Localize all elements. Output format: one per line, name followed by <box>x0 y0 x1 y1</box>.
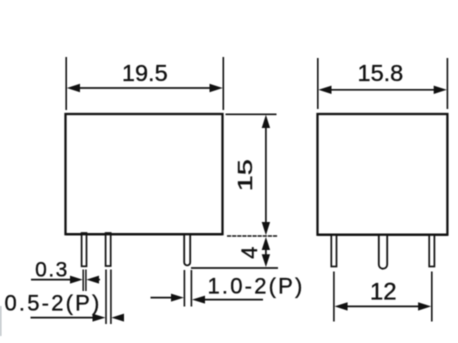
arrowhead down <box>262 254 270 267</box>
left leader line <box>151 297 173 299</box>
arrowhead left <box>67 84 80 92</box>
arrowhead right <box>418 302 431 310</box>
dimension 1.0-2(P) (pin C thickness) <box>151 270 305 307</box>
dimension 19.5 (top width, side view) <box>66 57 223 110</box>
svg-text:12: 12 <box>370 279 397 306</box>
extension line left below pin 1 <box>333 272 335 322</box>
extension line top <box>226 113 277 115</box>
extension line right below pin C <box>190 270 192 307</box>
extension line bottom at pin tips <box>191 267 278 269</box>
leader line with right arrow <box>31 279 72 281</box>
dimension 4 (pin length, side view) <box>191 237 278 268</box>
extension line left below pin A <box>82 270 84 292</box>
dimension line <box>324 89 441 91</box>
dimension line vertical <box>265 126 267 226</box>
relay body outline (side view) <box>66 114 223 234</box>
dimension 0.3 (pin A thickness) <box>31 258 100 291</box>
extension line right below pin 3 <box>431 272 433 322</box>
arrowhead pointing left from right side <box>86 276 99 284</box>
extension line left below pin C <box>183 270 185 307</box>
arrowhead down <box>262 222 270 235</box>
arrowhead pointing right at pin <box>70 276 83 284</box>
svg-text:15: 15 <box>234 159 256 191</box>
dimension 15 (body height, side view) <box>226 114 279 236</box>
extension line right below pin B <box>110 270 112 325</box>
dimension 0.5-2(P) (pin B thickness) <box>5 270 125 325</box>
short tail right <box>96 279 100 281</box>
svg-text:0.3: 0.3 <box>35 258 69 281</box>
svg-text:19.5: 19.5 <box>122 60 168 86</box>
arrowhead pointing right at pin <box>93 314 106 322</box>
dimension line vertical <box>265 240 267 264</box>
pin 3 (right pin, front view) <box>429 235 434 267</box>
arrowhead right <box>210 84 223 92</box>
dimension line <box>340 305 426 307</box>
pin C (coil pin with rounded tip, side view) <box>184 233 190 265</box>
extension line bottom (dashed) <box>227 235 278 237</box>
dimension line <box>72 87 217 89</box>
body bottom edge redrawn over pin tops (side view) <box>66 233 223 235</box>
extension line right <box>446 58 448 109</box>
arrowhead left <box>318 86 331 94</box>
arrowhead pointing left from right side <box>111 314 124 322</box>
extension line right <box>222 57 224 110</box>
extension line right below pin A <box>85 270 87 292</box>
arrowhead pointing right at pin <box>171 294 184 302</box>
pin 2 (middle pin with rounded tip, front view) <box>379 235 387 269</box>
arrowhead up <box>262 115 270 128</box>
arrowhead left <box>335 302 348 310</box>
arrowhead right <box>434 86 447 94</box>
relay body outline (front view) <box>318 114 448 235</box>
extension line left <box>65 57 67 110</box>
svg-text:15.8: 15.8 <box>358 60 404 86</box>
pin 1 (left pin, front view) <box>331 235 336 267</box>
arrowhead up <box>262 237 270 250</box>
scan artifact line at left edge <box>0 306 2 336</box>
extension line left below pin B <box>105 270 107 325</box>
pin A (left thin pin, side view) <box>82 233 87 266</box>
dimension 12 (pin spacing, front view) <box>334 272 432 322</box>
underline leader <box>204 299 263 301</box>
leader line with right arrow <box>31 317 94 319</box>
svg-text:4: 4 <box>237 247 262 259</box>
dimension 15.8 (top width, front view) <box>318 58 448 109</box>
svg-text:0.5-2(P): 0.5-2(P) <box>5 291 102 316</box>
pin B (second thin pin, side view) <box>106 233 111 266</box>
extension line left <box>317 58 319 109</box>
svg-text:1.0-2(P): 1.0-2(P) <box>208 274 305 299</box>
arrowhead pointing left at pin <box>192 296 205 304</box>
body bottom edge redrawn over pin tops (front view) <box>318 234 448 236</box>
